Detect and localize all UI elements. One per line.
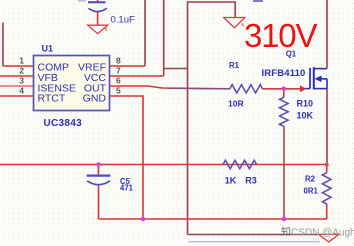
- svg-text:7: 7: [116, 66, 121, 76]
- svg-text:5: 5: [116, 86, 121, 96]
- svg-text:R2: R2: [305, 175, 316, 184]
- transistor Q1 channel bar: [313, 67, 315, 89]
- svg-text:U1: U1: [42, 44, 54, 54]
- wire drain rail 310V: [326, 0, 328, 69]
- transistor Q1 body arrow: [321, 78, 328, 80]
- transistor Q1 source stub: [314, 88, 327, 90]
- wire pin7 riser: [163, 0, 165, 76]
- wire ground rail: [99, 218, 327, 220]
- wire pin8 riser: [144, 0, 146, 66]
- wire R10 bottom lead: [283, 126, 285, 219]
- wire pin7 VCC: [110, 75, 164, 77]
- wire pin5 GND down: [110, 96, 144, 219]
- ground top-right: [224, 18, 245, 28]
- node junction R2 top: [325, 163, 329, 167]
- svg-text:0.1uF: 0.1uF: [111, 15, 135, 26]
- node junction gnd rail: [141, 217, 146, 222]
- svg-text:RTCT: RTCT: [38, 93, 66, 105]
- wire long feedback row: [0, 164, 327, 166]
- svg-text:1K: 1K: [225, 176, 237, 186]
- wire pin8 VREF: [110, 65, 146, 67]
- svg-text:3: 3: [19, 76, 24, 86]
- ground top-left: [88, 25, 108, 34]
- ground bottom-right: [319, 234, 340, 242]
- wire pin2 VFB: [0, 75, 34, 77]
- wire main vertical bus: [188, 2, 236, 235]
- transistor Q1 drain stub: [314, 68, 327, 70]
- svg-text:R10: R10: [297, 98, 314, 108]
- label top-left remnant: [78, 0, 86, 2]
- wire pin3 ISENSE: [0, 85, 34, 87]
- svg-text:R1: R1: [229, 61, 240, 70]
- node junction R10 rail: [282, 217, 287, 222]
- wire R2 bottom stub: [326, 204, 328, 219]
- svg-text:310V: 310V: [244, 17, 317, 54]
- svg-text:4: 4: [19, 86, 24, 96]
- svg-text:知CSDN @Aughts: 知CSDN @Aughts: [281, 226, 354, 239]
- capacitor C6 plates: [88, 1, 106, 3]
- wire C5 bottom stub: [98, 185, 100, 219]
- wire C5 top stub: [98, 165, 100, 176]
- svg-text:Q1: Q1: [286, 50, 297, 59]
- svg-text:8: 8: [116, 56, 121, 66]
- wire pin1 COMP: [3, 65, 34, 67]
- label top-right remnant: [253, 0, 263, 2]
- wire R1 to gate with arrow: [263, 88, 301, 90]
- node gate arrowhead: [300, 85, 306, 92]
- resistor R2 zigzag: [322, 173, 331, 204]
- wire R10 top stub: [283, 89, 285, 98]
- capacitor C6 bottom stub: [97, 12, 99, 25]
- wire source down to R2: [326, 89, 328, 165]
- node junction C5 top: [96, 162, 101, 167]
- wire bottom bus link: [188, 234, 320, 236]
- wire pin4 RTCT: [0, 95, 34, 97]
- wire left bus vertical: [2, 23, 4, 67]
- wire R1 left lead purple overlay: [168, 87, 230, 90]
- svg-text:GND: GND: [83, 93, 107, 105]
- svg-text:10R: 10R: [228, 99, 244, 109]
- svg-text:0R1: 0R1: [304, 187, 319, 196]
- node junction R10 gate: [282, 87, 287, 92]
- resistor R10 zigzag: [280, 97, 289, 126]
- wire bottom blue cut line: [189, 241, 320, 243]
- transistor Q1 mosfet gate bar: [309, 68, 311, 89]
- resistor R3 zigzag: [223, 160, 257, 168]
- svg-text:UC3843: UC3843: [44, 118, 83, 129]
- svg-text:2: 2: [19, 66, 24, 76]
- svg-text:1: 1: [19, 56, 24, 66]
- svg-text:R3: R3: [245, 176, 257, 186]
- capacitor C6 0.1uF top stub: [97, 0, 99, 2]
- wire pin6 OUT to R1: [110, 86, 230, 89]
- svg-text:471: 471: [120, 184, 134, 193]
- svg-text:IRFB4110: IRFB4110: [262, 68, 306, 79]
- op-amp U1 body box: [34, 56, 110, 111]
- wire R2 top stub: [326, 165, 328, 173]
- resistor R1 zigzag: [230, 85, 263, 93]
- capacitor C5 plates: [87, 175, 111, 177]
- transistor Q1 gate lead: [306, 88, 311, 90]
- wire link to main bus: [164, 68, 188, 70]
- svg-text:10K: 10K: [297, 110, 314, 120]
- svg-text:6: 6: [116, 76, 121, 86]
